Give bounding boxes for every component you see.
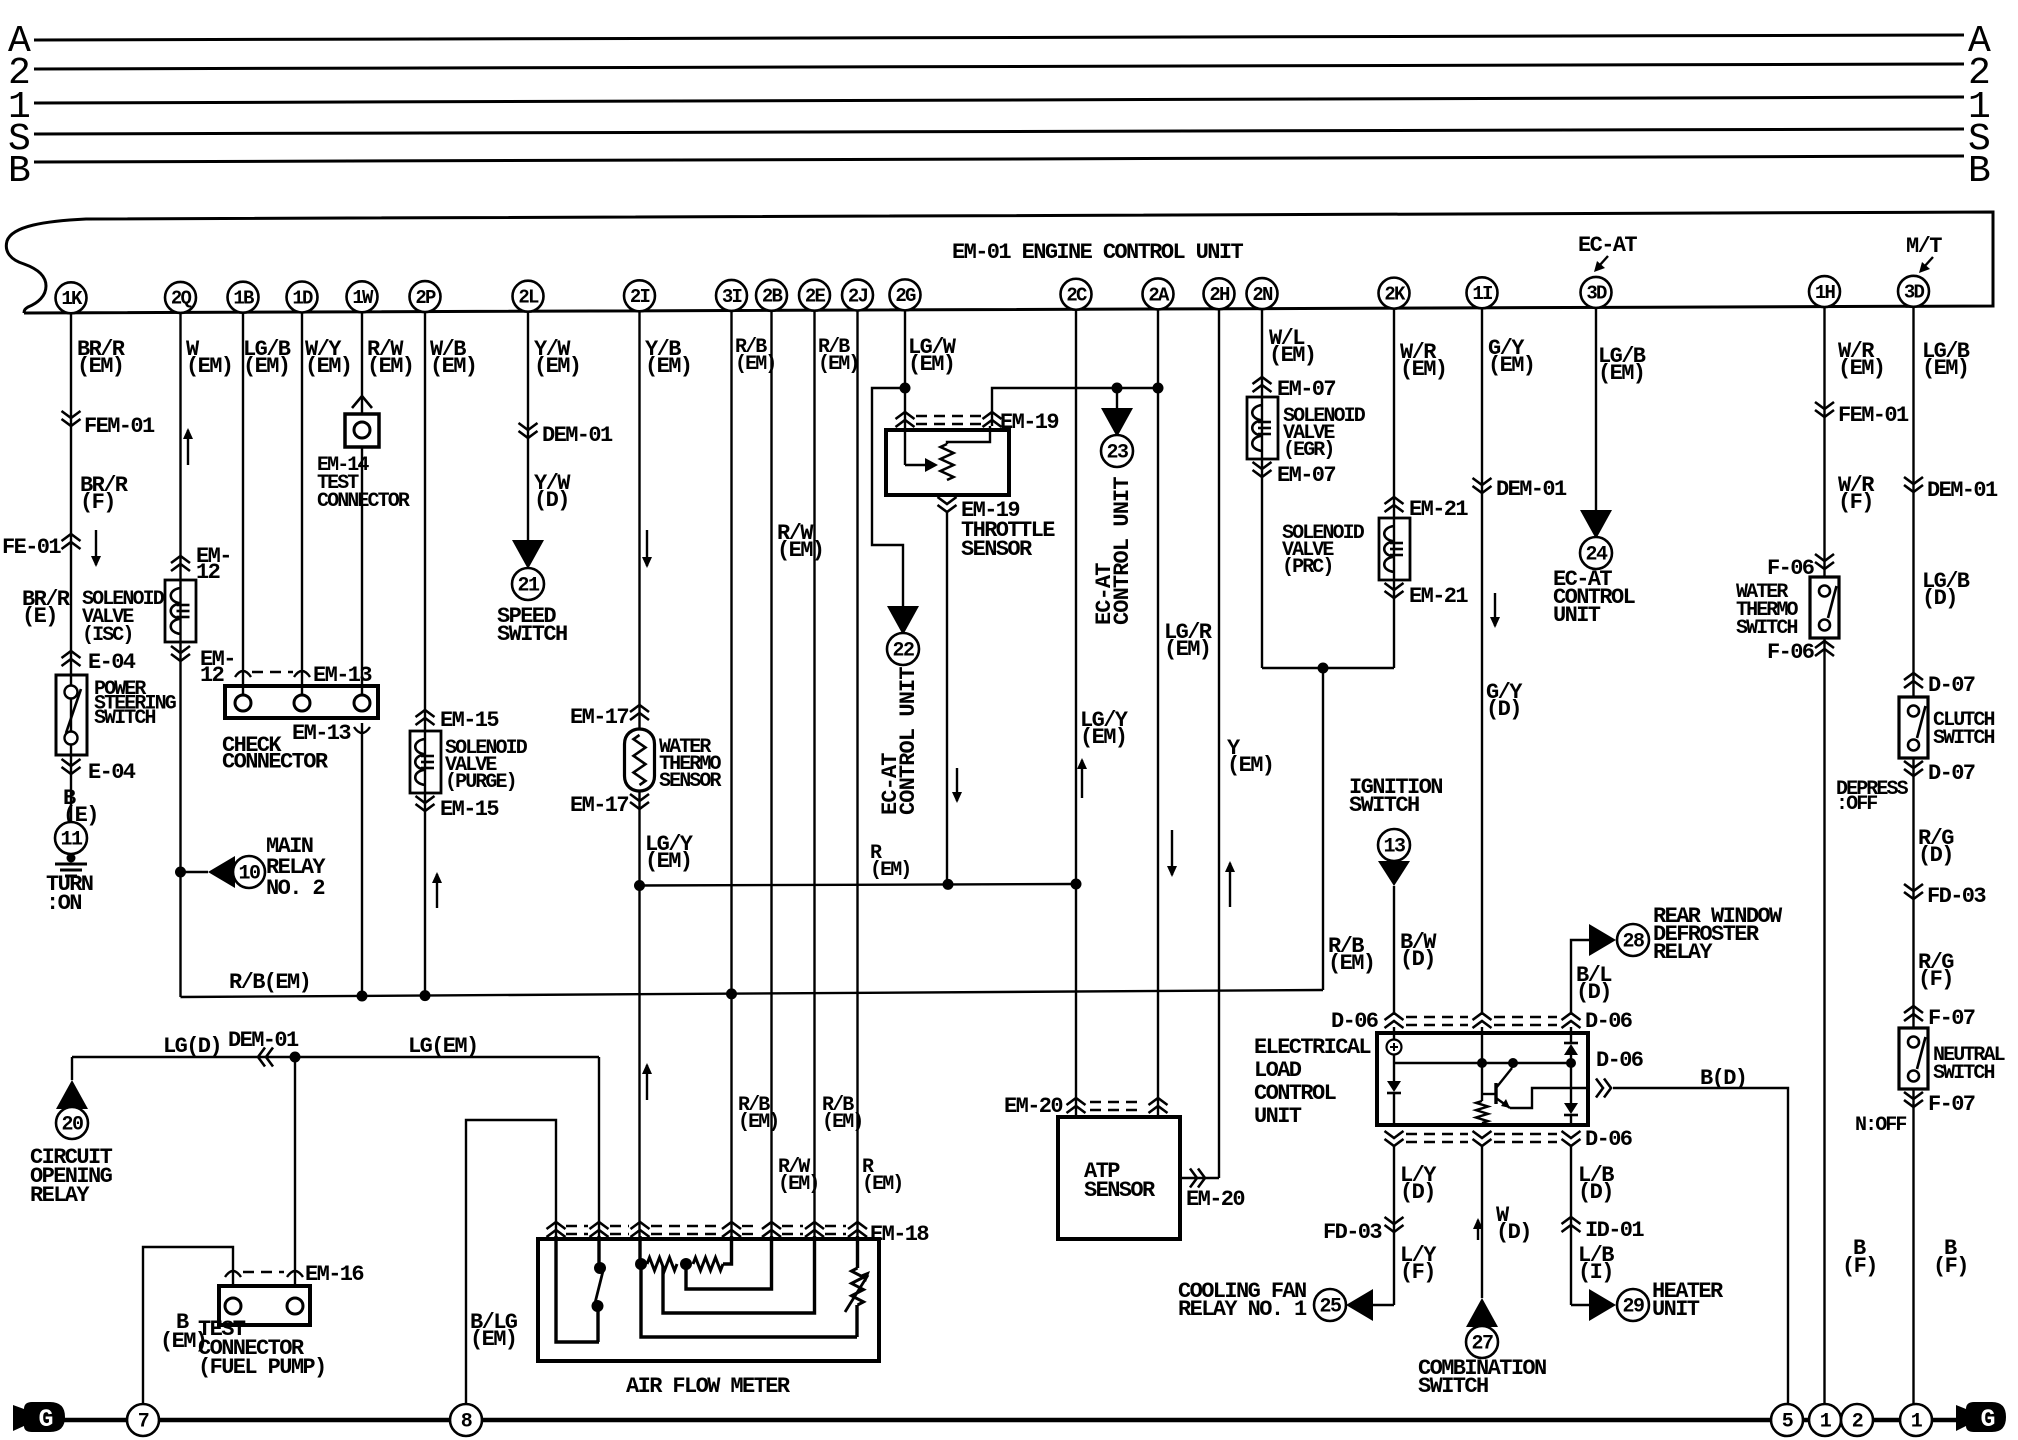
terminal circle 13 <box>1378 829 1410 861</box>
svg-text:(EM): (EM) <box>1227 753 1273 778</box>
svg-text:(EM): (EM) <box>870 859 910 882</box>
svg-text:27: 27 <box>1471 1333 1493 1356</box>
label R/B (EM) small 3I <box>735 336 775 376</box>
svg-text:(EM): (EM) <box>1328 951 1374 976</box>
svg-text:RELAY NO. 1: RELAY NO. 1 <box>1178 1297 1307 1322</box>
label EC-AT (pin 3D) <box>1578 233 1637 272</box>
label R/W (EM) on 2B <box>777 521 823 563</box>
label LG/Y (EM) on 2C <box>1080 708 1129 750</box>
svg-text:(EM): (EM) <box>1598 361 1644 386</box>
AFM tap to 2B <box>686 1236 772 1289</box>
svg-text:(EM): (EM) <box>1080 725 1126 750</box>
wire 1I through ELCU <box>1481 1027 1483 1125</box>
connector FD-03 on 3D MT <box>1904 884 1986 909</box>
ECU pin 2N <box>1247 278 1278 309</box>
connector EM-20 right of ATP <box>1186 1169 1244 1213</box>
ECU pin 1I <box>1467 277 1498 308</box>
terminal circle 1a <box>1809 1404 1841 1436</box>
svg-text:EM-15: EM-15 <box>440 708 499 733</box>
arrow to EC-AT control unit 23 <box>1101 408 1133 437</box>
arrow to EC-AT control unit 22 <box>887 606 919 635</box>
connector E-04 above power steering switch <box>62 650 136 675</box>
wire 1323 down <box>1322 668 1324 990</box>
svg-text:(D): (D) <box>1922 586 1957 611</box>
label ATP SENSOR <box>1084 1159 1156 1203</box>
svg-text:2H: 2H <box>1209 284 1230 306</box>
ECU pin 2Q <box>165 282 196 313</box>
wire rail R/B(EM) <box>181 990 1324 997</box>
label B/W (D) <box>1400 930 1437 972</box>
junction dot H_B EM-13 <box>357 991 368 1002</box>
svg-text:22: 22 <box>892 640 914 663</box>
connector EM-17 below water thermo sensor <box>570 793 649 818</box>
check connector EM-13 box <box>225 686 378 718</box>
svg-text:AIR FLOW METER: AIR FLOW METER <box>626 1374 791 1399</box>
ECU pin 3I <box>716 280 747 311</box>
label R/B (EM) bottom 2E <box>822 1094 862 1134</box>
svg-text:8: 8 <box>461 1411 472 1434</box>
label EC-AT CONTROL UNIT at 24 <box>1553 567 1636 628</box>
clutch switch <box>1899 697 1928 758</box>
connector FEM-01 on 1H <box>1815 402 1909 428</box>
svg-text:LOAD: LOAD <box>1254 1058 1302 1083</box>
svg-text:UNIT: UNIT <box>1553 603 1601 628</box>
svg-text:20: 20 <box>61 1114 83 1137</box>
svg-text:12: 12 <box>196 560 220 585</box>
junction dot H_A 2C <box>1071 879 1082 890</box>
terminal circle 23 <box>1101 435 1133 467</box>
svg-text:(E): (E) <box>22 604 57 629</box>
connector F-06 above WTS <box>1767 554 1834 581</box>
svg-text:(EM): (EM) <box>186 354 232 379</box>
bus label 1 left <box>8 86 31 129</box>
label POWER STEERING SWITCH <box>94 678 177 730</box>
svg-text:G: G <box>1980 1405 1995 1434</box>
svg-text:(EM): (EM) <box>908 352 954 377</box>
label ELECTRICAL LOAD CONTROL UNIT <box>1254 1035 1371 1129</box>
ECU pin 3D <box>1581 277 1612 308</box>
connector D-06 row top <box>1331 1009 1632 1034</box>
svg-text:EC-AT: EC-AT <box>1578 233 1637 258</box>
svg-text:DEM-01: DEM-01 <box>1927 478 1998 503</box>
svg-text:FD-03: FD-03 <box>1323 1220 1382 1245</box>
arrow to circuit opening relay <box>56 1080 88 1109</box>
wire 2N W/L <box>1261 309 1263 668</box>
svg-text:2A: 2A <box>1148 284 1170 306</box>
wire solenoid bottom rail <box>1262 667 1394 669</box>
bus label S right <box>1968 118 1991 161</box>
wire 3I R/B <box>730 310 732 1236</box>
label W/L (EM) <box>1269 326 1315 368</box>
wire to main relay arrow <box>181 871 209 873</box>
svg-text:SWITCH: SWITCH <box>1933 727 1995 750</box>
svg-text:1: 1 <box>1911 1411 1923 1434</box>
wire 2Q W <box>179 312 181 997</box>
svg-text:(EM): (EM) <box>1400 357 1446 382</box>
connector D-06 row bottom <box>1385 1127 1632 1152</box>
label EM-14 TEST CONNECTOR <box>317 454 410 513</box>
label CHECK CONNECTOR <box>222 733 329 775</box>
label R/B (EM) at 1323 <box>1328 934 1374 976</box>
svg-text:(EM): (EM) <box>777 538 823 563</box>
label B/L (D) <box>1576 963 1612 1005</box>
svg-text:ELECTRICAL: ELECTRICAL <box>1254 1035 1371 1060</box>
connector EM-07 below EGR <box>1253 462 1336 488</box>
ATP sensor box <box>1058 1117 1180 1239</box>
terminal circle 11 <box>55 822 87 854</box>
junction dot H_B 2P <box>420 990 431 1001</box>
svg-text:(EM): (EM) <box>1269 343 1315 368</box>
arrow to cooling fan relay <box>1346 1289 1373 1321</box>
label LG/W (EM) <box>908 335 957 377</box>
AFM wire 3I leg <box>723 1236 732 1264</box>
svg-text:(EGR): (EGR) <box>1283 439 1334 462</box>
label L/B (I) <box>1578 1243 1614 1285</box>
label THROTTLE SENSOR <box>961 518 1055 562</box>
svg-text:G: G <box>38 1405 53 1434</box>
connector F-06 below WTS <box>1767 640 1834 665</box>
label Y (EM) <box>1227 736 1273 778</box>
ECU pin 1D <box>287 282 318 313</box>
svg-text:B: B <box>1968 150 1991 193</box>
wire 2L Y/W <box>527 311 529 540</box>
connector DEM-01 on 3D MT <box>1904 477 1998 503</box>
svg-text:SWITCH: SWITCH <box>94 707 156 730</box>
junction dot H_A 2I <box>634 880 645 891</box>
junction dot 2A rail <box>1153 383 1164 394</box>
junction dot solenoid rail <box>1318 663 1329 674</box>
ECU pin 2K <box>1379 278 1410 309</box>
connector EM-18 row <box>547 1222 930 1247</box>
label R (EM) bottom 2J <box>862 1156 902 1196</box>
terminal circle 5 <box>1771 1404 1803 1436</box>
terminal circle 2 <box>1841 1404 1873 1436</box>
svg-text:RELAY: RELAY <box>30 1183 90 1208</box>
terminal circle 7 <box>127 1404 159 1436</box>
rotated label EC-AT CONTROL UNIT at 22 <box>878 667 921 815</box>
svg-text:25: 25 <box>1319 1296 1341 1319</box>
terminal circle 29 <box>1617 1289 1649 1321</box>
svg-text:12: 12 <box>200 663 224 688</box>
arrow up beside 2C <box>1077 758 1087 798</box>
connector EM-19 pair <box>896 410 1059 435</box>
svg-text:1: 1 <box>1820 1411 1832 1434</box>
dashed line EM-13 <box>235 663 372 688</box>
svg-text:EM-20: EM-20 <box>1004 1094 1062 1119</box>
svg-text:2G: 2G <box>895 285 916 307</box>
wire L/Y down <box>1369 1146 1394 1305</box>
svg-text:1I: 1I <box>1472 283 1492 305</box>
svg-text:N:OFF: N:OFF <box>1855 1114 1906 1137</box>
terminal circle 27 <box>1466 1326 1498 1358</box>
svg-text:2: 2 <box>1852 1411 1863 1434</box>
svg-text:(D): (D) <box>534 488 569 513</box>
svg-text:LG(D): LG(D) <box>163 1034 221 1059</box>
svg-text:FE-01: FE-01 <box>2 535 61 560</box>
label Y/B (EM) <box>645 337 691 379</box>
junction dot main relay tap <box>175 867 186 878</box>
bus label 2 left <box>8 52 31 95</box>
svg-text:LG(EM): LG(EM) <box>408 1034 478 1059</box>
open arrow above EM-14 <box>352 396 372 408</box>
bus label A left <box>8 20 31 63</box>
svg-text:FEM-01: FEM-01 <box>84 414 155 439</box>
bus line A <box>34 35 1964 40</box>
solenoid valve PRC <box>1379 518 1410 580</box>
junction dot rail right <box>1566 1058 1576 1068</box>
wire 2P W/B <box>424 312 426 996</box>
power steering switch <box>56 675 87 755</box>
terminal circle 1b <box>1900 1404 1932 1436</box>
arrow down beside 1K <box>91 530 101 567</box>
connector D-07 above clutch <box>1904 673 1975 698</box>
svg-text:(EM): (EM) <box>430 354 476 379</box>
connector FEM-01 on 1K <box>62 411 156 439</box>
terminal circle 20 <box>56 1107 88 1139</box>
label TURN :ON <box>46 872 93 916</box>
svg-text:(ISC): (ISC) <box>82 624 133 647</box>
label W/R (EM) 1H <box>1838 339 1884 381</box>
ECU pin 1H <box>1809 276 1840 307</box>
svg-text:(D): (D) <box>1918 843 1953 868</box>
ECU pin 2P <box>410 281 441 312</box>
wire LG/Y sensor down <box>946 495 948 884</box>
svg-text:D-06: D-06 <box>1331 1009 1378 1034</box>
svg-text:EM-21: EM-21 <box>1409 584 1468 609</box>
svg-text:(D): (D) <box>1486 697 1521 722</box>
label B(D) <box>1700 1066 1746 1091</box>
ECU pin 2J <box>842 280 873 311</box>
label L/Y (F) <box>1400 1243 1437 1285</box>
wire 1H W/R <box>1823 307 1825 1404</box>
label BR/R (EM) <box>77 337 126 379</box>
ELCU box <box>1377 1033 1588 1125</box>
label B/LG (EM) <box>470 1310 518 1352</box>
svg-text:EM-17: EM-17 <box>570 793 628 818</box>
connector EM-17 above water thermo sensor <box>570 705 649 730</box>
terminal circle 25 <box>1314 1289 1346 1321</box>
label LG/B (EM) on 3D <box>1598 344 1646 386</box>
ECU pin 2C <box>1061 279 1092 310</box>
wire 2K W/R <box>1393 308 1395 668</box>
label M/T (pin 3D) <box>1906 234 1942 273</box>
label LG/B (EM) <box>243 337 291 379</box>
label B (EM) <box>160 1310 206 1354</box>
svg-text:SWITCH: SWITCH <box>1736 617 1798 640</box>
svg-text:10: 10 <box>238 863 260 886</box>
label B (F) 1H <box>1842 1236 1877 1279</box>
arrow to main relay no.2 <box>208 856 235 888</box>
label REAR WINDOW DEFROSTER RELAY <box>1653 904 1783 965</box>
svg-text:13: 13 <box>1383 836 1405 859</box>
connector EM-12 below solenoid ISC <box>171 646 235 688</box>
connector EM-15 above purge <box>416 708 500 733</box>
svg-text:UNIT: UNIT <box>1652 1297 1700 1322</box>
svg-text:EM-15: EM-15 <box>440 797 499 822</box>
connector DEM-01 on 1I <box>1473 477 1568 502</box>
arrow to combination switch <box>1466 1298 1498 1327</box>
arrow down beside sensor wire <box>952 768 962 803</box>
svg-text:2C: 2C <box>1066 285 1087 307</box>
connector F-07 below neutral <box>1904 1092 1975 1117</box>
label DEPRESS :OFF <box>1836 778 1909 816</box>
svg-text:2L: 2L <box>518 287 539 309</box>
water thermo switch <box>1810 577 1839 638</box>
plus terminal in ELCU <box>1387 1040 1402 1055</box>
arrow up beside 2I low <box>642 1063 652 1100</box>
bus line 1 <box>34 97 1964 103</box>
label MAIN RELAY NO. 2 <box>266 834 326 901</box>
terminal circle 24 <box>1580 537 1612 569</box>
test connector EM-14 <box>345 414 379 447</box>
wire EM-16 left leg <box>143 1247 233 1404</box>
wire B/LG <box>466 1120 556 1404</box>
AFM resistor R2 <box>693 1258 723 1271</box>
arrow down beside 1I <box>1490 593 1500 628</box>
junction dot H_A sensor <box>943 879 954 890</box>
svg-text:(EM): (EM) <box>77 354 123 379</box>
wire 1D W/Y <box>301 312 303 697</box>
label W (D) <box>1496 1203 1531 1245</box>
svg-text:CONTROL: CONTROL <box>1254 1081 1337 1106</box>
svg-text:F-07: F-07 <box>1928 1092 1975 1117</box>
label LG/B (EM) MT <box>1922 339 1970 381</box>
svg-text:(D): (D) <box>1400 947 1435 972</box>
svg-text:(EM): (EM) <box>534 354 580 379</box>
svg-text:2P: 2P <box>415 287 436 309</box>
svg-text:EM-13: EM-13 <box>292 721 351 746</box>
svg-text::OFF: :OFF <box>1836 793 1877 816</box>
svg-text:FEM-01: FEM-01 <box>1838 403 1909 428</box>
svg-text:SWITCH: SWITCH <box>497 622 567 647</box>
svg-text:B: B <box>8 150 31 193</box>
svg-text:21: 21 <box>517 575 540 598</box>
label W/R (F) <box>1838 473 1875 515</box>
neutral switch <box>1899 1028 1928 1089</box>
label SOLENOID VALVE (ISC) <box>82 588 165 647</box>
terminal circle 28 <box>1617 924 1649 956</box>
label W/Y (EM) <box>305 337 351 379</box>
svg-text:D-06: D-06 <box>1585 1127 1632 1152</box>
svg-text:E-04: E-04 <box>88 760 136 785</box>
connector EM-15 below purge <box>416 796 500 822</box>
connector EM-21 below PRC <box>1385 583 1469 609</box>
wire W down <box>1481 1146 1483 1298</box>
label BR/R (F) <box>80 473 129 515</box>
wire rail y885 <box>640 884 1077 886</box>
svg-text:2K: 2K <box>1384 283 1406 305</box>
bus label A right <box>1968 20 1991 63</box>
svg-text:ID-01: ID-01 <box>1585 1218 1644 1243</box>
ECU pin 2H <box>1204 278 1235 309</box>
arrow up beside 2H <box>1225 861 1235 907</box>
label WATER THERMO SWITCH <box>1736 581 1799 640</box>
svg-text:3I: 3I <box>722 286 742 308</box>
connector F-07 above neutral <box>1904 1006 1975 1031</box>
label W/R (EM) on 2K <box>1400 340 1446 382</box>
svg-text:(EM): (EM) <box>305 354 351 379</box>
arrow to EC-AT CU 24 <box>1580 510 1612 539</box>
label L/Y (D) <box>1400 1163 1437 1205</box>
svg-text:UNIT: UNIT <box>1254 1104 1302 1129</box>
label COOLING FAN RELAY NO. 1 <box>1178 1279 1307 1322</box>
svg-text:(F): (F) <box>1842 1254 1877 1279</box>
label LG/Y (EM) on 2I <box>645 832 694 874</box>
svg-text:EM-17: EM-17 <box>570 705 628 730</box>
svg-text:B(D): B(D) <box>1700 1066 1746 1091</box>
bus label B right <box>1968 150 1991 193</box>
label R/W (EM) <box>367 337 413 379</box>
connector DEM-01 on 2L <box>519 423 614 448</box>
svg-text:(D): (D) <box>1576 980 1611 1005</box>
arrow up beside 2Q <box>183 428 193 465</box>
label G/Y (EM) <box>1488 336 1534 378</box>
svg-text:M/T: M/T <box>1906 234 1942 259</box>
svg-text:(EM): (EM) <box>243 354 289 379</box>
rotated label EC-AT CONTROL UNIT at 23 <box>1092 477 1135 625</box>
svg-text:1B: 1B <box>233 288 254 310</box>
svg-text:29: 29 <box>1622 1296 1644 1319</box>
AFM resistor R1 <box>647 1258 677 1271</box>
svg-text:DEM-01: DEM-01 <box>542 423 613 448</box>
label LG(D) <box>163 1034 221 1059</box>
transistor Q1 <box>1482 1063 1588 1108</box>
arrow to heater unit <box>1589 1289 1616 1321</box>
connector EM-12 above solenoid ISC <box>171 544 231 585</box>
air flow meter box <box>538 1239 879 1361</box>
label N:OFF <box>1855 1114 1906 1137</box>
label W/B (EM) <box>430 337 476 379</box>
wire 2A LG/R <box>1157 309 1159 1117</box>
arrow down beside 2A <box>1167 830 1177 877</box>
ECU pin 1B <box>228 282 259 313</box>
wire 2E R/B <box>813 310 815 1313</box>
AFM vane sensor <box>845 1236 870 1337</box>
svg-text:CONNECTOR: CONNECTOR <box>222 750 329 775</box>
label G/Y (D) <box>1486 680 1523 722</box>
svg-text:D-07: D-07 <box>1928 673 1975 698</box>
arrow up small on W wire <box>1473 1218 1483 1240</box>
wire down to arrow 23 <box>1116 388 1118 408</box>
svg-text:(EM): (EM) <box>1164 637 1210 662</box>
connector DEM-01 inline horizontal <box>228 1028 299 1067</box>
terminal circle 10 <box>233 856 265 888</box>
svg-text:E-04: E-04 <box>88 650 136 675</box>
svg-text:EM-01 ENGINE CONTROL UNIT: EM-01 ENGINE CONTROL UNIT <box>952 240 1243 265</box>
svg-text:24: 24 <box>1585 544 1608 567</box>
wire 1B LG/B <box>242 312 244 697</box>
label R/G (F) <box>1918 950 1954 992</box>
svg-text:EM-21: EM-21 <box>1409 497 1468 522</box>
label AIR FLOW METER <box>626 1374 791 1399</box>
AFM pot tap to 2E <box>663 1236 815 1313</box>
bus label B left <box>8 150 31 193</box>
junction dot 2G <box>900 383 911 394</box>
solenoid valve purge <box>410 731 441 793</box>
label R (EM) on 2J <box>870 842 910 882</box>
wire EM-16 right leg <box>294 1057 296 1286</box>
label SOLENOID VALVE (PURGE) <box>445 737 528 794</box>
svg-text:(F): (F) <box>1933 1254 1968 1279</box>
label SPEED SWITCH <box>497 604 567 647</box>
wire ELCU left leg <box>1393 1027 1395 1125</box>
arrow up beside 2P <box>432 872 442 908</box>
terminal circle 21 <box>512 568 544 600</box>
svg-text:SENSOR: SENSOR <box>659 770 722 793</box>
wire LG(EM) drop to AFM <box>598 1057 600 1236</box>
label IGNITION SWITCH <box>1349 775 1442 818</box>
label BR/R (E) <box>22 587 71 629</box>
